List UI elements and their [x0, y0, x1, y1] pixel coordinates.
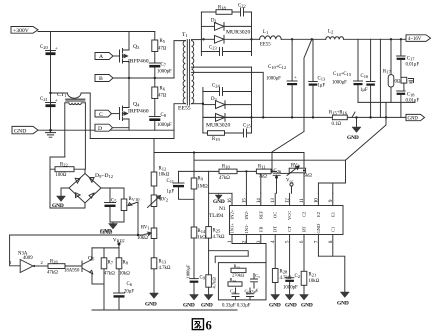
capacitor C7 1000pF	[149, 63, 172, 79]
svg-text:4.7kΩ: 4.7kΩ	[212, 277, 217, 289]
svg-text:0.01μF: 0.01μF	[406, 99, 420, 104]
svg-text:C21: C21	[40, 97, 48, 102]
svg-text:C23: C23	[209, 46, 217, 51]
ground (pins 7/8)	[337, 292, 349, 307]
transistor Q3 MOSFET IRFP460	[120, 32, 149, 79]
capacitor C31 1000pF (pin5 CT)	[283, 274, 300, 295]
wire C9/RV10 bottom join + ground	[110, 222, 124, 224]
resistor R6 47 ohm	[152, 78, 167, 117]
wire Q feedback from return rail	[346, 117, 387, 160]
svg-text:GND: GND	[408, 116, 419, 121]
node gate C terminal	[95, 110, 120, 118]
capacitor C2 (upper bulk electrolytic)	[40, 45, 58, 55]
resistor R13 4.7k	[151, 258, 171, 293]
resistor R27 (chain x208 lower)	[206, 275, 217, 295]
resistor R18 (snubber top)	[201, 6, 240, 15]
svg-text:C: C	[99, 112, 103, 118]
capacitor C8 1000pF	[149, 113, 172, 130]
resistor R10 47k	[219, 165, 237, 181]
svg-text:47kΩ: 47kΩ	[104, 272, 115, 277]
svg-text:D1: D1	[211, 19, 217, 24]
svg-text:IRFP460: IRFP460	[128, 59, 149, 65]
svg-text:MUR3020: MUR3020	[206, 123, 230, 129]
svg-text:L2: L2	[328, 30, 333, 35]
svg-text:C8: C8	[161, 113, 167, 118]
capacitor C9 (bridge filter)	[105, 188, 118, 222]
svg-text:C4: C4	[230, 289, 235, 295]
wire secondary top lead	[192, 39, 202, 41]
svg-text:GND: GND	[337, 301, 349, 307]
ground (pin5)	[285, 295, 297, 309]
node gate A terminal	[95, 53, 120, 61]
svg-text:RV10: RV10	[129, 197, 141, 202]
svg-text:GND: GND	[145, 302, 157, 308]
wire top rail	[38, 31, 155, 33]
node Vcc terminal	[286, 179, 293, 194]
ground (pin16 line)	[209, 171, 232, 205]
svg-text:R18: R18	[218, 6, 226, 11]
svg-text:R13: R13	[159, 260, 167, 265]
svg-text:R23: R23	[234, 264, 241, 270]
wire gnd rail	[38, 129, 174, 131]
gate N3A 4009 inverter	[10, 252, 49, 273]
svg-text:E1: E1	[330, 212, 335, 217]
svg-text:7kΩ: 7kΩ	[259, 174, 268, 179]
wire E2/E1 collector loop	[318, 160, 345, 193]
svg-text:R14: R14	[198, 229, 206, 234]
wire output top rail	[281, 38, 406, 40]
svg-text:4.7kΩ: 4.7kΩ	[159, 266, 171, 271]
wire RV10 wiper down	[137, 202, 139, 235]
svg-text:D: D	[98, 126, 102, 132]
potentiometer RV3 5k	[281, 164, 312, 179]
svg-text:VCC: VCC	[287, 211, 292, 220]
svg-text:1μF: 1μF	[318, 84, 326, 89]
svg-text:0.33μF 0.33μF: 0.33μF 0.33μF	[222, 304, 251, 309]
svg-text:E2: E2	[316, 212, 321, 217]
svg-text:GND: GND	[285, 303, 297, 309]
capacitor C27 0.33uF	[245, 273, 260, 296]
resistor R15+R16 0.1 ohm shunt	[329, 111, 348, 128]
capacitor C30 1000uF (chain x194)	[186, 264, 206, 294]
svg-text:2: 2	[41, 260, 43, 265]
svg-text:EE55: EE55	[260, 43, 271, 48]
resistor R22 100 ohm (CT burden)	[50, 163, 85, 178]
svg-text:R26: R26	[50, 260, 58, 265]
capacitor C11 1uF	[167, 171, 195, 199]
caption 图6	[192, 319, 203, 330]
inductor L2	[326, 30, 344, 40]
wire bus to inverter input	[10, 235, 21, 266]
svg-text:RV1: RV1	[141, 226, 150, 231]
svg-text:R22: R22	[60, 163, 68, 168]
wire bottom bus	[92, 309, 237, 311]
svg-text:MUR3020: MUR3020	[226, 30, 250, 36]
svg-text:C13: C13	[318, 77, 326, 82]
svg-text:12: 12	[286, 198, 291, 203]
ground earth symbol	[46, 130, 56, 137]
svg-text:B: B	[99, 76, 103, 82]
ground (pin6)	[300, 295, 313, 309]
svg-text:+: +	[55, 47, 58, 52]
svg-text:1μF: 1μF	[167, 190, 175, 195]
resistor R24	[228, 277, 242, 286]
svg-text:1000pF: 1000pF	[157, 70, 172, 75]
svg-text:R25: R25	[213, 229, 221, 234]
resistor R19 + capacitor C25 (lower snubber)	[203, 124, 252, 143]
svg-text:0.01μF: 0.01μF	[406, 63, 420, 68]
svg-text:RT: RT	[302, 226, 307, 232]
wire pin4 net line	[209, 251, 249, 257]
capacitor C28 0.33uF	[230, 288, 239, 300]
potentiometer RV10	[121, 188, 140, 222]
wire x386 stub	[385, 102, 387, 117]
svg-text:14: 14	[257, 198, 262, 203]
svg-text:TL494: TL494	[209, 213, 224, 219]
svg-text:+300V: +300V	[13, 28, 30, 34]
current transformer CT	[49, 92, 90, 174]
node gate B terminal	[95, 75, 113, 83]
svg-text:C3: C3	[255, 273, 260, 279]
resistor R7 47k	[101, 248, 115, 310]
diode D4	[203, 114, 252, 129]
svg-text:Q5: Q5	[88, 256, 95, 262]
wire x194 vertical	[193, 153, 195, 179]
capacitor C10+C12 1000uF	[266, 39, 297, 117]
capacitor C23 (upper ladder bottom)	[201, 46, 251, 56]
wire pin5 net line	[215, 256, 248, 262]
svg-text:T1: T1	[182, 32, 188, 38]
wire sub-rail	[358, 101, 415, 103]
svg-text:FB: FB	[258, 226, 263, 232]
resistor R26 47k	[47, 260, 82, 276]
svg-text:R9: R9	[198, 177, 204, 182]
svg-text:270kΩ: 270kΩ	[232, 273, 245, 278]
svg-text:18A950: 18A950	[64, 269, 80, 274]
wire P feedback from top rail	[272, 39, 312, 171]
transformer T1 EE55	[178, 32, 194, 112]
svg-text:CT: CT	[287, 226, 292, 232]
potentiometer RV2	[148, 195, 169, 228]
svg-text:1000pF: 1000pF	[283, 286, 298, 291]
svg-text:C2: C2	[302, 212, 307, 217]
svg-text:11: 11	[300, 198, 305, 203]
svg-text:10kΩ: 10kΩ	[119, 272, 130, 277]
wire left control bus	[10, 234, 144, 236]
pin labels top row	[230, 209, 336, 220]
wire pins 1-3 tie line	[232, 244, 266, 263]
node Vref supply	[113, 239, 125, 258]
resistor R23 270k	[231, 264, 246, 278]
svg-text:C22: C22	[238, 4, 246, 9]
wire upper rectifier ladder rails	[201, 12, 251, 56]
resistor R8 10k	[116, 258, 130, 293]
wire midpoint rail	[113, 77, 174, 79]
capacitor C22 (snubber top)	[238, 4, 252, 17]
svg-text:R11: R11	[258, 165, 266, 170]
wire feed line y171.4	[179, 170, 257, 172]
potentiometer RV1 10k	[137, 226, 157, 258]
resistor R17	[383, 39, 394, 102]
transistor Q4 MOSFET IRFP460	[120, 78, 149, 130]
resistor R29 10k (pin6 RT)	[301, 271, 319, 294]
capacitor C4 (lower bulk electrolytic)	[40, 97, 58, 107]
wire plain vertical x380	[379, 39, 381, 117]
svg-text:C9: C9	[200, 276, 206, 281]
resistor R11 7k	[256, 165, 272, 180]
svg-text:GND: GND	[301, 303, 313, 309]
svg-text:C6: C6	[127, 282, 133, 287]
svg-text:47kΩ: 47kΩ	[219, 176, 230, 181]
node GND input terminal	[12, 126, 38, 134]
wire Q5 emitter join	[92, 283, 104, 285]
svg-text:GND: GND	[347, 135, 359, 141]
resistor R25 (chain x208)	[206, 193, 225, 274]
svg-text:C17: C17	[407, 57, 415, 62]
node +300V input terminal	[11, 27, 38, 34]
svg-text:R17: R17	[383, 70, 391, 75]
ground (bridge)	[52, 196, 66, 209]
wire lower rectifier ladder rails	[203, 67, 252, 133]
svg-text:Q3: Q3	[133, 44, 140, 50]
svg-text:OC: OC	[273, 212, 278, 218]
svg-text:C24: C24	[212, 84, 220, 89]
svg-text:C20: C20	[40, 45, 48, 50]
wire C14 jog to rail	[352, 112, 355, 117]
capacitor C29 0.33uF	[245, 288, 254, 300]
svg-text:R21: R21	[309, 273, 317, 278]
wire line B y160.2	[194, 159, 346, 161]
wire burden bottom	[50, 203, 85, 208]
capacitor C26 junction	[271, 169, 282, 193]
svg-text:N1: N1	[219, 206, 226, 212]
pin stubs bottom	[232, 235, 333, 278]
capacitor C16 1uF	[360, 39, 375, 117]
ground (pin4)	[269, 295, 281, 309]
svg-text:R12: R12	[159, 167, 167, 172]
resistor R5 47 ohm	[152, 32, 167, 64]
ground (C9)	[100, 224, 118, 235]
svg-text:C18: C18	[407, 93, 415, 98]
svg-text:20μF: 20μF	[124, 290, 134, 295]
svg-text:10kΩ: 10kΩ	[137, 236, 148, 241]
svg-text:C5: C5	[245, 289, 250, 295]
svg-text:1kΩ: 1kΩ	[198, 236, 207, 241]
svg-text:1000μF: 1000μF	[186, 264, 191, 278]
node GND output terminal	[406, 114, 425, 121]
svg-text:Q4: Q4	[133, 102, 140, 108]
resistor R9 1M	[191, 177, 208, 228]
svg-text:REF: REF	[258, 210, 263, 219]
inductor L1 EE55	[252, 30, 282, 48]
svg-text:RV3: RV3	[291, 164, 300, 169]
svg-text:R6: R6	[160, 87, 166, 92]
svg-text:GND: GND	[213, 199, 225, 205]
capacitor C19 0.01uF	[397, 91, 420, 117]
svg-text:GND: GND	[100, 230, 112, 236]
ground (R13)	[145, 293, 159, 308]
svg-text:GND: GND	[183, 303, 195, 309]
svg-text:GND: GND	[316, 223, 321, 233]
diode D2	[201, 35, 251, 43]
wire pin14 feed	[260, 174, 262, 193]
svg-text:1MΩ: 1MΩ	[198, 185, 209, 190]
svg-text:EE55: EE55	[178, 106, 191, 112]
svg-text:C25: C25	[243, 124, 251, 129]
svg-text:GND: GND	[52, 203, 64, 209]
node +4~16V output terminal	[406, 35, 431, 42]
svg-text:C2: C2	[295, 274, 300, 279]
pin stubs top	[232, 193, 333, 205]
svg-text:GND: GND	[14, 128, 26, 134]
resistor R20 0 ohm jumper	[395, 77, 414, 91]
svg-text:L1: L1	[263, 30, 268, 35]
capacitor C13 1uF	[309, 39, 326, 117]
resistor R12 10k	[151, 167, 169, 196]
svg-text:1N2-: 1N2-	[244, 210, 249, 220]
pin numbers bottom	[228, 240, 334, 243]
svg-text:R5: R5	[160, 39, 166, 44]
ground (output rail)	[347, 117, 361, 141]
svg-text:1000μF: 1000μF	[332, 81, 347, 86]
svg-text:+: +	[294, 76, 297, 81]
transistor Q5 18A950	[64, 230, 112, 284]
svg-text:10kΩ: 10kΩ	[309, 279, 320, 284]
svg-text:D3: D3	[211, 97, 217, 102]
wire bottom line of power stage	[90, 138, 174, 140]
wire secondary bottom lead	[192, 103, 203, 105]
diode bridge D9~D12	[69, 173, 113, 203]
svg-text:1μF: 1μF	[360, 88, 368, 93]
svg-text:47Ω: 47Ω	[158, 47, 167, 52]
svg-text:4.7kΩ: 4.7kΩ	[213, 235, 225, 240]
svg-text:IRFP460: IRFP460	[128, 109, 149, 115]
op-amp U1 TL494 body	[230, 206, 344, 235]
resistor R14 1k (chain x194)	[191, 227, 206, 279]
svg-text:47Ω: 47Ω	[158, 94, 167, 99]
svg-text:1000μF: 1000μF	[266, 77, 281, 82]
wire comp box	[218, 263, 266, 300]
svg-text:GND: GND	[269, 303, 281, 309]
wire secondary taps	[192, 67, 264, 117]
svg-text:10: 10	[314, 198, 319, 203]
wire control mid vertical chain	[153, 139, 155, 173]
svg-text:C14+C15: C14+C15	[333, 72, 352, 77]
svg-text:R8: R8	[123, 261, 129, 266]
svg-text:R15+R16: R15+R16	[329, 111, 348, 116]
wire pins 7-8 gnd	[318, 256, 344, 292]
svg-text:0.1Ω: 0.1Ω	[332, 122, 342, 127]
svg-text:C7: C7	[161, 63, 167, 68]
svg-text:C1: C1	[330, 227, 335, 232]
node gate D terminal	[95, 124, 129, 132]
svg-text:R19: R19	[212, 137, 220, 142]
resistor R28 4.7k (pin4)	[272, 269, 291, 295]
capacitor C6 20uF	[114, 282, 135, 310]
svg-text:16: 16	[228, 198, 233, 203]
svg-text:1N1-: 1N1-	[244, 224, 249, 234]
svg-text:1000pF: 1000pF	[157, 123, 172, 128]
wire bridge left to ground	[61, 188, 69, 196]
wire Q5 collector rail	[92, 247, 119, 249]
capacitor C24 (lower ladder top)	[203, 84, 252, 96]
svg-text:5kΩ: 5kΩ	[304, 173, 313, 178]
ground (chain x208)	[201, 295, 213, 309]
wire input cap leg	[50, 32, 52, 131]
pin numbers top	[228, 198, 334, 203]
svg-text:+: +	[55, 99, 58, 104]
diode D1 MUR3020	[201, 19, 251, 36]
svg-text:0Ω: 0Ω	[395, 80, 401, 85]
svg-text:C10+C12: C10+C12	[268, 65, 286, 70]
wire line A y152.5	[154, 153, 304, 194]
op-amp U1 TL494 labels	[209, 206, 226, 219]
svg-text:1N1+: 1N1+	[230, 223, 235, 234]
wire primary top lead	[174, 41, 185, 78]
svg-text:C5: C5	[111, 199, 117, 204]
wire bridge right output	[101, 187, 124, 189]
svg-text:RV2: RV2	[160, 198, 169, 203]
svg-text:47kΩ: 47kΩ	[47, 271, 58, 276]
svg-text:R24: R24	[230, 277, 237, 283]
svg-text:6: 6	[206, 319, 212, 333]
wire CT secondary left jog	[50, 157, 65, 208]
svg-text:D9~D12: D9~D12	[95, 173, 113, 179]
wire primary bottom lead	[174, 104, 185, 139]
svg-text:1: 1	[10, 260, 12, 265]
svg-text:4009: 4009	[23, 256, 33, 261]
svg-text:4~16V: 4~16V	[408, 37, 422, 42]
svg-text:R7: R7	[108, 261, 114, 266]
svg-text:DT: DT	[273, 226, 278, 232]
svg-text:GND: GND	[201, 303, 213, 309]
wire pin15 feed	[245, 171, 247, 193]
svg-text:15: 15	[242, 198, 247, 203]
diode D3 MUR3020	[203, 97, 252, 109]
svg-text:C16: C16	[361, 74, 369, 79]
pin labels bottom row	[230, 223, 336, 234]
svg-text:R28: R28	[280, 270, 288, 275]
svg-text:C11: C11	[167, 179, 175, 184]
svg-text:13: 13	[271, 198, 276, 203]
capacitor C18 0.01uF	[397, 39, 420, 77]
ground (chain x194)	[183, 295, 199, 309]
svg-text:R10: R10	[222, 165, 230, 170]
svg-text:1N2+: 1N2+	[230, 209, 235, 220]
wire output return rail	[203, 116, 406, 118]
svg-text:10kΩ: 10kΩ	[159, 173, 170, 178]
svg-text:100Ω: 100Ω	[56, 173, 67, 178]
capacitor C14+C15 1000uF	[332, 39, 363, 102]
